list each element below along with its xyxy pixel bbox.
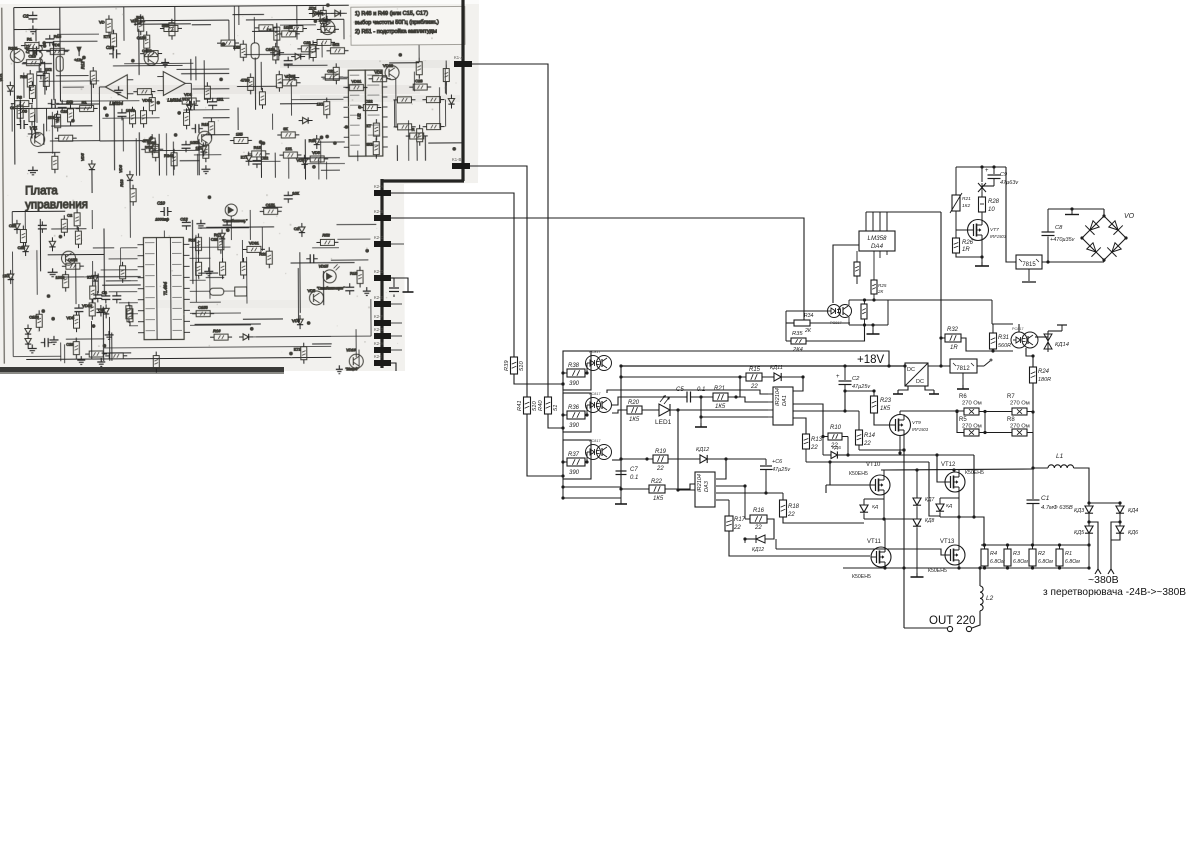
resistor (scan)	[59, 135, 73, 141]
svg-text:VD8: VD8	[292, 318, 301, 323]
svg-text:DA4: DA4	[871, 243, 884, 250]
wire C5 to R21	[691, 396, 714, 398]
wire (scan filler)	[198, 139, 200, 175]
connector pad K2-I	[374, 360, 391, 366]
wire (scan filler)	[262, 206, 282, 208]
wire	[35, 29, 37, 41]
wire KD8 to ground	[916, 527, 918, 573]
wire (scan filler)	[11, 103, 13, 131]
svg-text:С152: С152	[68, 257, 78, 262]
svg-text:С21: С21	[60, 109, 68, 114]
component (scan filler)	[373, 123, 379, 136]
svg-text:10К: 10К	[292, 190, 299, 195]
wire (scan filler)	[318, 141, 345, 143]
svg-text:1К2: 1К2	[3, 273, 11, 278]
svg-text:VD5: VD5	[80, 153, 85, 162]
diode VD11	[762, 376, 774, 378]
svg-text:47µ25v: 47µ25v	[772, 467, 791, 473]
component (scan filler)	[93, 294, 102, 296]
wire C5 tap to DA1 pin4	[701, 397, 768, 417]
wire LM358 lower links	[856, 276, 858, 284]
op-amp U1B LM324 (scan)	[163, 71, 185, 95]
svg-text:R16: R16	[753, 508, 765, 514]
wire (scan filler)	[288, 159, 290, 179]
wire LM358 supply line	[866, 211, 941, 213]
resistor R31	[990, 333, 997, 349]
resistor R20	[627, 406, 642, 414]
component (scan filler)	[373, 76, 387, 82]
svg-text:С151: С151	[266, 202, 276, 207]
optocoupler U6	[1011, 332, 1027, 348]
svg-text:DA3: DA3	[704, 480, 710, 492]
svg-text:R24: R24	[309, 138, 317, 143]
diode VD17 (scan)	[295, 53, 301, 59]
wire R22 to DA3 pin2	[665, 484, 695, 489]
component (scan filler)	[73, 342, 79, 355]
svg-text:КД12: КД12	[696, 447, 709, 453]
wire R34 left to R35	[786, 322, 794, 324]
wire (scan filler)	[323, 78, 348, 80]
wire LED1 node down to DA3	[678, 410, 695, 490]
svg-text:390: 390	[569, 470, 580, 476]
wire (scan filler)	[191, 220, 193, 284]
component (scan filler)	[144, 35, 150, 48]
wire (scan filler)	[113, 64, 183, 66]
wire (scan filler)	[312, 247, 339, 249]
svg-text:180R: 180R	[1038, 377, 1051, 383]
svg-text:VD6: VD6	[118, 164, 123, 173]
wire (scan filler)	[237, 108, 239, 130]
svg-text:КД6: КД6	[832, 445, 841, 451]
terminal ~380V b	[1108, 569, 1114, 574]
resistor R18 (scan)	[153, 356, 159, 369]
svg-text:С15: С15	[28, 54, 36, 59]
wire (scan lower rails)	[24, 211, 26, 230]
svg-text:R18: R18	[788, 504, 800, 510]
resistor (scan)	[427, 124, 441, 130]
svg-text:з перетворювача -24В->~380В: з перетворювача -24В->~380В	[1043, 586, 1186, 598]
wire (scan filler)	[253, 17, 255, 43]
capacitor C10 (scan)	[163, 207, 165, 216]
LED Вкл (scan)	[225, 204, 237, 216]
component (scan filler)	[252, 159, 261, 161]
wire (scan filler)	[322, 271, 324, 305]
svg-text:выбор частоты 50Гц (приблизн.): выбор частоты 50Гц (приблизн.)	[355, 20, 439, 27]
wire (scan filler)	[53, 54, 55, 100]
wire (scan filler)	[109, 291, 138, 293]
transistor VD16 (scan)	[349, 354, 363, 368]
wire (scan filler)	[138, 132, 140, 175]
svg-text:R25: R25	[878, 283, 887, 288]
svg-text:270 Ом: 270 Ом	[962, 401, 982, 407]
capacitor (pad filter)	[389, 287, 399, 289]
transistor VT13	[945, 545, 965, 565]
resistor R7	[1012, 408, 1027, 415]
component (scan filler)	[297, 319, 303, 325]
wire VT9 drain rail to R6	[900, 410, 964, 412]
wire VT12-VT13 mid node	[958, 492, 960, 545]
component (scan filler)	[301, 347, 307, 360]
svg-text:1К8: 1К8	[66, 99, 74, 104]
wire (scan filler)	[206, 226, 274, 228]
component (scan filler)	[17, 105, 23, 118]
ground (feedback cluster)	[872, 325, 874, 330]
wire R40 to opto block 2	[548, 414, 563, 428]
optocoupler U5 (feedback)	[828, 305, 841, 318]
wire KD5 bottom to rail	[1088, 533, 1090, 568]
resistor R38	[567, 369, 585, 377]
wire DCDC to 7812	[928, 365, 950, 367]
svg-text:R38: R38	[568, 363, 580, 369]
antenna tap	[1071, 209, 1073, 214]
connector pad K2-B	[374, 215, 391, 221]
resistor R13 (scan)	[130, 189, 136, 202]
wire (scan filler)	[134, 23, 191, 25]
wire bridge bottom	[1103, 260, 1105, 262]
wire R32 branch	[941, 337, 945, 339]
resistor (scan)	[259, 25, 273, 31]
wire R35 left	[786, 340, 791, 342]
wire (scan filler)	[44, 62, 46, 95]
capacitor (scan)	[284, 60, 293, 62]
svg-text:2К4: 2К4	[792, 347, 803, 353]
wire (scan filler)	[260, 143, 262, 178]
diode near bus (scan)	[448, 98, 454, 104]
svg-text:R23: R23	[880, 398, 892, 404]
svg-text:6.8Ом: 6.8Ом	[1038, 559, 1053, 565]
svg-text:R21: R21	[962, 196, 971, 202]
svg-text:1К5: 1К5	[236, 131, 244, 136]
svg-text:VT12: VT12	[941, 462, 956, 468]
svg-text:R32: R32	[947, 327, 959, 333]
svg-text:С155: С155	[198, 305, 208, 310]
wire VT9 source drop	[903, 435, 905, 450]
wire (scan filler)	[357, 151, 359, 162]
resistor (scan)	[321, 26, 335, 32]
svg-text:С28: С28	[18, 245, 26, 250]
wire DA3 pin3 from x678 feed	[676, 488, 679, 491]
svg-text:R16: R16	[213, 328, 221, 333]
svg-text:270 Ом: 270 Ом	[1010, 401, 1030, 407]
wire opto2 to C5/R21 line	[612, 397, 687, 405]
svg-text:K1-B: K1-B	[452, 157, 462, 162]
wire R31 top	[992, 324, 994, 333]
ground (scan)	[52, 268, 54, 272]
ground (7812)	[962, 373, 964, 385]
component (scan filler)	[92, 275, 98, 281]
component (scan filler)	[200, 220, 202, 224]
svg-text:C5: C5	[676, 387, 684, 393]
regulator 7815	[1016, 255, 1042, 269]
wire (scan filler)	[203, 117, 230, 119]
resistor R26	[953, 238, 960, 253]
wire +18V rail	[621, 365, 905, 367]
svg-text:R8: R8	[17, 95, 23, 100]
svg-text:R12: R12	[80, 61, 85, 69]
wire R34 right to opto bottom rail	[810, 322, 850, 324]
svg-text:VT11: VT11	[867, 539, 882, 545]
resistor (scan)	[109, 353, 123, 359]
wire opto3 bottom to R24	[1026, 348, 1033, 367]
wire HO to VT10 gate	[825, 485, 827, 493]
wire (scan filler)	[56, 74, 89, 76]
wire (scan filler)	[195, 323, 261, 325]
svg-text:VT7: VT7	[990, 227, 999, 233]
wire (scan filler)	[57, 33, 99, 35]
resistor R40	[545, 397, 552, 414]
svg-text:1К1: 1К1	[217, 97, 225, 102]
resistor R18	[780, 500, 787, 517]
wire (scan filler)	[198, 227, 249, 229]
LED VD15 (scan)	[323, 270, 336, 283]
wire opto3 top feed	[1018, 324, 1020, 332]
svg-text:R1: R1	[214, 232, 220, 237]
wire x929 drop to right clamp	[929, 462, 940, 516]
wire (scan filler)	[97, 273, 99, 293]
wire rail to 7815 input	[1006, 167, 1016, 262]
wire feedback bottom rail	[849, 324, 888, 326]
diode ZD1 (scan)	[313, 10, 319, 16]
DC-DC converter module	[905, 363, 928, 386]
svg-text:VD15: VD15	[319, 264, 329, 268]
wire KD14 top stub	[1048, 330, 1062, 332]
component (scan filler)	[53, 336, 55, 340]
svg-text:VD8: VD8	[131, 18, 140, 23]
wire (scan filler)	[280, 103, 318, 105]
svg-text:КД8: КД8	[925, 518, 934, 524]
svg-text:"Стабилизац.": "Стабилизац."	[222, 219, 248, 223]
scan bottom dark edge	[0, 367, 284, 372]
wire R5-R8 link	[979, 432, 1012, 434]
capacitor (scan)	[20, 120, 22, 129]
component (scan filler)	[194, 124, 196, 133]
wire (scan filler)	[204, 97, 229, 99]
component (scan filler)	[55, 115, 61, 128]
component (scan filler)	[80, 105, 94, 111]
svg-text:K2-D: K2-D	[374, 269, 384, 274]
wire (scan filler)	[111, 333, 113, 361]
svg-text:PC817: PC817	[1012, 327, 1024, 331]
wire VT12 gate riser	[937, 455, 945, 482]
svg-text:R7: R7	[1007, 394, 1015, 400]
wire (scan filler)	[271, 114, 273, 130]
resistor R35	[791, 338, 806, 344]
component (scan filler)	[385, 66, 399, 80]
svg-text:R3: R3	[1013, 551, 1021, 557]
resistor (scan)	[397, 97, 411, 103]
wire (scan filler)	[304, 139, 306, 179]
capacitor C1 (scan)	[28, 14, 37, 16]
svg-text:VD2: VD2	[374, 70, 383, 75]
component (scan filler)	[36, 314, 42, 327]
wire (scan filler)	[232, 13, 264, 15]
resistor R15	[746, 373, 762, 381]
capacitor (scan)	[101, 295, 110, 297]
svg-text:1) R48 и R49 (или C15, C17): 1) R48 и R49 (или C15, C17)	[355, 11, 428, 18]
component (scan filler)	[74, 213, 80, 226]
wire (scan filler)	[93, 247, 114, 249]
component (scan filler)	[145, 146, 159, 152]
wire (scan filler)	[250, 160, 281, 162]
svg-text:Плата: Плата	[25, 185, 58, 197]
wire (scan filler)	[90, 321, 92, 359]
resistor R25	[871, 280, 877, 294]
wire right edge	[887, 300, 889, 325]
resistor R17 (scan)	[333, 67, 339, 80]
wire (scan filler)	[254, 58, 256, 110]
diode (scan)	[274, 50, 280, 56]
bus wire (thick horizontal jog)	[382, 179, 464, 182]
ground (C7)	[620, 489, 622, 500]
capacitor C2	[844, 366, 846, 380]
wire opto3 bottom to R19 line	[612, 459, 621, 461]
svg-text:C5: C5	[22, 109, 28, 114]
wire left link line	[806, 461, 929, 463]
svg-text:VD: VD	[99, 19, 105, 24]
connector pad K2-C	[374, 241, 391, 247]
svg-text:С28: С28	[415, 78, 423, 83]
transistor VT10	[870, 475, 890, 495]
capacitor C12 (scan)	[182, 221, 191, 223]
capacitor (scan)	[345, 286, 354, 288]
transistor VT3 (scan)	[198, 131, 212, 145]
svg-text:K1-A: K1-A	[454, 55, 464, 60]
component (scan filler)	[413, 84, 427, 90]
resistor R17	[716, 499, 729, 501]
svg-text:L1: L1	[1056, 453, 1064, 460]
component (scan filler)	[135, 19, 141, 25]
svg-text:1R: 1R	[950, 345, 958, 351]
wire (scan filler)	[103, 228, 105, 294]
svg-text:VD5: VD5	[312, 150, 321, 155]
capacitor C6	[765, 459, 767, 465]
svg-text:C8: C8	[10, 105, 16, 110]
wire vertical left feed (x621)	[620, 377, 622, 489]
svg-text:С28: С28	[66, 342, 74, 347]
resistor R48 (scan)	[43, 73, 49, 86]
resistor (scan)	[317, 39, 331, 45]
svg-text:VT9: VT9	[912, 420, 921, 426]
wire DA3 HO line	[716, 492, 783, 494]
component (scan filler)	[190, 101, 192, 110]
wire R32 to R31 bottom	[961, 338, 1013, 351]
svg-text:R8: R8	[1007, 417, 1015, 423]
ground (scan)	[56, 113, 58, 117]
capacitor C7	[620, 459, 622, 470]
svg-text:КТ1: КТ1	[294, 347, 302, 352]
wire VT10-VT11 mid node	[883, 495, 885, 519]
wire opto2 bottom to R20	[612, 410, 627, 413]
svg-text:R20: R20	[628, 400, 640, 406]
svg-text:С155: С155	[137, 35, 147, 40]
wire K2-A to R39 column	[391, 193, 514, 357]
wire (scan filler)	[39, 80, 99, 82]
wire L1 to KD column	[1074, 468, 1089, 503]
svg-text:R28: R28	[988, 199, 1000, 205]
wire (scan filler)	[209, 237, 211, 299]
wire opto collector up	[848, 300, 850, 305]
component (scan filler)	[8, 274, 14, 280]
diode KD12b	[765, 519, 774, 539]
wire VD12 node to DA3 VB pin	[716, 459, 726, 479]
wire R35 left riser	[785, 311, 787, 341]
inductor L2	[980, 586, 983, 611]
svg-text:VD82: VD82	[82, 303, 93, 308]
wire (scan filler)	[102, 284, 140, 286]
wire R8 node down to L1	[1032, 433, 1034, 469]
svg-text:R15: R15	[350, 271, 358, 276]
wire (scan filler)	[192, 88, 229, 90]
resistor R41	[524, 397, 531, 414]
wire C7 node to R22	[621, 488, 649, 490]
resistor R12 (scan)	[90, 71, 96, 84]
wire R-row bottom rail	[843, 567, 1089, 569]
svg-text:VT10: VT10	[866, 462, 881, 468]
svg-text:С22: С22	[261, 155, 269, 160]
wire (scan filler)	[413, 72, 415, 92]
thyristor (scan)	[25, 328, 31, 334]
ground (C5 tap)	[700, 417, 702, 423]
wire R21 node to DA1 pin2	[736, 397, 768, 402]
component (scan filler)	[273, 47, 279, 60]
wire (scan filler)	[312, 343, 332, 345]
component (scan filler)	[325, 74, 339, 80]
component (scan filler)	[10, 49, 24, 63]
wire (scan filler)	[274, 153, 276, 178]
wire K2-F stub	[391, 322, 402, 324]
wire opto LED return vertical	[562, 390, 564, 393]
resistor (scan)	[442, 27, 448, 40]
connector pad K2-E	[374, 301, 391, 307]
wire R26 bottom	[956, 253, 982, 257]
svg-text:3К1: 3К1	[366, 142, 374, 147]
wire VT7 top rail	[956, 166, 1006, 168]
svg-text:K2-E: K2-E	[374, 295, 384, 300]
wire LM358 left pin down	[833, 245, 859, 303]
svg-text:С28: С28	[303, 40, 311, 45]
ground (scan)	[108, 331, 110, 335]
svg-text:DC: DC	[907, 367, 915, 373]
wire (scan filler)	[36, 250, 38, 295]
svg-text:270 Ом: 270 Ом	[962, 424, 982, 430]
svg-text:VO: VO	[1124, 213, 1135, 220]
svg-text:390: 390	[569, 423, 580, 429]
wire (scan filler)	[424, 136, 426, 161]
svg-text:С28: С28	[211, 237, 219, 242]
resistor (scan)	[141, 111, 147, 124]
component (scan filler)	[196, 311, 210, 317]
wire R14 bottom to feed line	[858, 445, 860, 450]
resistor (scan)	[426, 97, 440, 103]
component (scan filler)	[32, 46, 34, 55]
svg-text:LM358: LM358	[868, 235, 887, 242]
wire R35 right to R30 bottom	[806, 325, 865, 341]
component (scan filler)	[208, 101, 217, 103]
capacitor (scan)	[38, 224, 47, 226]
resistor (scan)	[221, 40, 235, 46]
connector pad K2-F	[374, 320, 391, 326]
wire (scan filler)	[124, 62, 193, 64]
wire R19 line	[621, 458, 653, 460]
component (scan filler)	[144, 51, 158, 65]
component (scan filler)	[283, 80, 297, 86]
wire VT13 node to L2	[979, 568, 981, 586]
wire (scan filler)	[33, 114, 35, 131]
diode VD5 (scan)	[89, 164, 95, 170]
wire K1-B to R41 column	[470, 166, 527, 397]
svg-text:C12: C12	[180, 216, 188, 221]
component (scan filler)	[118, 86, 120, 90]
